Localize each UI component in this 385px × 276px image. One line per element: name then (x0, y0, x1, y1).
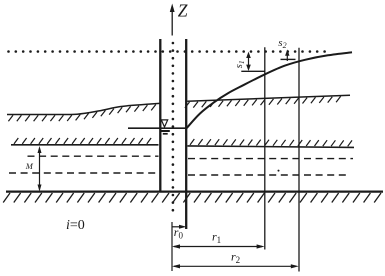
ground surface (right of well) (187, 95, 350, 101)
dimension r0 (172, 225, 187, 229)
observation line at r2 (298, 48, 300, 272)
well casing left wall (159, 39, 161, 192)
svg-text:i=0: i=0 (66, 218, 85, 233)
s1 double arrow (246, 52, 251, 71)
water table symbol (inverted triangle) (161, 120, 167, 127)
aquifer top line (right) (188, 146, 355, 148)
dashed equipotential line upper left (28, 155, 159, 157)
water level line in well (128, 127, 187, 129)
s1 level tick (241, 70, 264, 72)
observation line at r1 (264, 47, 266, 249)
dimension r2 (172, 264, 299, 268)
dashed equipotential line upper right (188, 158, 353, 160)
dimension r1 (172, 244, 265, 248)
svg-text:Z: Z (178, 1, 188, 21)
ground surface hatching (left) (8, 105, 155, 122)
Z axis arrow (170, 4, 175, 36)
aquifer top hatching (right, above line) (190, 139, 352, 146)
aquifer bottom line (6, 191, 383, 193)
ground surface (left of well) (7, 103, 160, 114)
well casing right wall (extended to r0 dimension) (185, 39, 187, 229)
speck (278, 170, 280, 172)
drawdown (depression) curve (187, 52, 352, 128)
water table symbol tick marks (161, 131, 170, 134)
aquifer top hatching (left, above line) (14, 138, 151, 144)
dimension extension line (well axis) (171, 222, 173, 271)
dashed equipotential line lower left (9, 172, 159, 174)
svg-text:M: M (25, 161, 34, 171)
aquifer bottom hatching (3, 193, 381, 203)
ground surface hatching (right) (185, 96, 341, 108)
aquifer top line (left) (11, 144, 159, 146)
well axis (dotted centerline) (172, 42, 175, 212)
s2 level tick (281, 58, 296, 60)
aquifer thickness double arrow (38, 146, 42, 192)
s2 arrow (285, 49, 289, 61)
dashed equipotential line lower right (188, 174, 350, 176)
static piezometric surface (dotted line) (7, 50, 326, 53)
